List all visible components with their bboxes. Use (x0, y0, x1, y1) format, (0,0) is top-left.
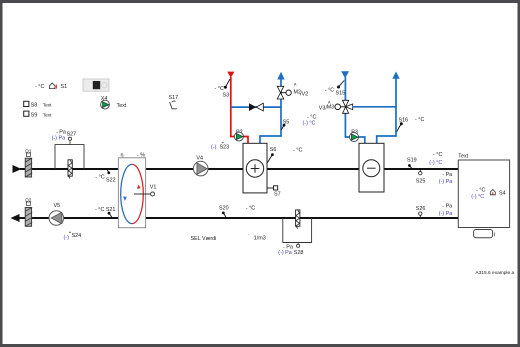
bypass damper V1 (134, 185, 156, 197)
outdoor house icon S1 (50, 83, 55, 89)
room box (458, 154, 509, 228)
svg-text:(-) Pa: (-) Pa (278, 250, 291, 256)
svg-text:- °C S21: - °C S21 (95, 207, 115, 213)
svg-text:(-): (-) (211, 145, 217, 151)
filter F2 (296, 210, 300, 229)
svg-text:S24: S24 (72, 233, 82, 239)
svg-text:S3: S3 (223, 93, 230, 99)
sensor S6 (268, 147, 303, 163)
frame border left (0, 0, 3, 347)
svg-text:S22: S22 (106, 178, 116, 184)
cooling coil (359, 143, 384, 192)
svg-text:S1: S1 (61, 84, 68, 90)
svg-text:S16: S16 (399, 117, 409, 123)
supply duct inlet arrow (13, 165, 22, 173)
extract duct wire (hx to room) (146, 217, 459, 219)
svg-text:- °C: - °C (476, 187, 485, 193)
svg-text:S17: S17 (169, 95, 179, 101)
damper D1 (25, 149, 32, 178)
supply duct wire (hx to heating coil) (146, 168, 243, 170)
S27 connection line (69, 140, 71, 144)
svg-text:- °C: - °C (35, 84, 44, 90)
fan V5 (49, 203, 64, 225)
checkbox S8 (24, 101, 52, 108)
cooling return pipe right (377, 79, 396, 144)
filter F2 pressure tapping box (283, 218, 312, 243)
sensor S5 (281, 120, 289, 131)
heating return arrow (blue, up) (277, 72, 284, 80)
sensor S3 (215, 79, 231, 99)
frame border bottom (0, 344, 520, 347)
rotor red arc (132, 164, 143, 223)
filter F1 pressure tapping box (55, 145, 84, 169)
sensor S21 (95, 207, 115, 217)
svg-text:V5: V5 (54, 203, 61, 209)
rotor blue arrow down (123, 196, 127, 201)
svg-text:(-) Pa: (-) Pa (439, 179, 452, 185)
rotor red arrow up (137, 184, 141, 188)
svg-text:V4: V4 (196, 156, 203, 162)
valve V2 two-way (277, 86, 291, 99)
sensor S15 (325, 81, 345, 97)
heating coil (243, 143, 267, 193)
svg-text:(-) °C: (-) °C (303, 120, 316, 126)
svg-text:S4: S4 (499, 191, 506, 197)
svg-text:- Pa: - Pa (442, 204, 452, 210)
svg-text:- °C: - °C (215, 86, 224, 92)
svg-text:V1: V1 (150, 185, 157, 191)
svg-text:- °C: - °C (325, 87, 334, 93)
svg-text:S9: S9 (31, 112, 38, 118)
red thermometer tick (55, 85, 57, 89)
svg-text:- Pa: - Pa (442, 172, 452, 178)
svg-text:- °C: - °C (293, 148, 302, 154)
cooling return arrow (blue, up) (392, 72, 399, 79)
svg-text:Text: Text (117, 103, 127, 109)
svg-text:S23: S23 (220, 145, 230, 151)
svg-text:- °C: - °C (95, 175, 104, 181)
heating supply pipe (red) (231, 77, 248, 144)
cooling bypass line (valve to return) (353, 106, 396, 108)
svg-text:- °C: - °C (246, 206, 255, 212)
supply duct wire (heating coil to cooling coil) (267, 168, 359, 170)
svg-text:S6: S6 (270, 147, 277, 153)
svg-text:S26: S26 (416, 206, 426, 212)
toggle button widget (83, 79, 109, 91)
svg-text:(-): (-) (64, 235, 70, 241)
sensor S26 (416, 204, 452, 218)
sensor S20 (219, 206, 255, 218)
pump P3 (350, 129, 359, 141)
svg-text:I: I (494, 232, 496, 238)
svg-text:- °C: - °C (433, 152, 442, 158)
svg-text:(-) °C: (-) °C (471, 194, 484, 200)
svg-text:S25: S25 (416, 179, 426, 185)
supply duct wire (cooling coil to room) (384, 168, 458, 170)
heating return pipe (blue) (260, 79, 281, 144)
sensor S22 (95, 169, 115, 184)
switch S17 (169, 95, 179, 109)
frame border right (518, 0, 520, 347)
rotor blue arc (121, 164, 132, 223)
S27 sensing circle (68, 137, 71, 140)
sensor S16 (397, 117, 425, 132)
svg-text:·: · (248, 232, 250, 238)
pump P2 (234, 129, 243, 141)
frame border top (0, 0, 520, 3)
svg-text:SEL Værdi: SEL Værdi (191, 236, 217, 242)
cooling supply pipe left (345, 77, 364, 144)
sensor S25 (416, 169, 452, 185)
bypass line with check valve (231, 106, 281, 108)
svg-text:- °C: - °C (415, 117, 424, 123)
room house icon S4 (490, 190, 495, 195)
svg-text:(-) °C: (-) °C (429, 160, 442, 166)
svg-text:/V2: /V2 (300, 91, 308, 97)
filter F1 (68, 160, 72, 179)
svg-text:A315.6 example a: A315.6 example a (476, 270, 515, 276)
fan V4 (193, 156, 208, 176)
svg-text:η: η (121, 153, 124, 159)
pump X4 (101, 96, 127, 109)
checkbox S9 (24, 111, 52, 118)
svg-text:S19: S19 (407, 157, 417, 163)
svg-text:S15: S15 (336, 91, 346, 97)
svg-text:(-) Pa: (-) Pa (52, 136, 65, 142)
valve V3 three-way (335, 100, 353, 113)
svg-text:(-) Pa: (-) Pa (439, 211, 452, 217)
damper D2 (25, 198, 32, 227)
frost stat S7 (267, 186, 281, 198)
svg-text:S20: S20 (219, 206, 229, 212)
svg-text:Text: Text (43, 112, 52, 118)
svg-text:S7: S7 (274, 192, 281, 198)
heat exchanger rotor (118, 153, 145, 228)
supply duct wire (left of heat exchanger) (20, 168, 118, 170)
heating supply triangle (red) (227, 72, 234, 78)
svg-text:S28: S28 (294, 250, 304, 256)
check valve (249, 103, 263, 111)
room unit button (474, 230, 496, 239)
sensor S19 (407, 152, 442, 169)
svg-text:S27: S27 (67, 132, 77, 138)
svg-text:Text: Text (43, 103, 52, 109)
svg-text:- %: - % (137, 153, 145, 159)
extract duct wire (left of heat exchanger) (18, 217, 118, 219)
cooling supply triangle (blue, down) (341, 71, 349, 78)
extract duct outlet arrow (11, 214, 20, 222)
svg-text:1/m3: 1/m3 (254, 236, 266, 242)
svg-text:Text: Text (458, 154, 468, 160)
svg-text:S8: S8 (31, 103, 38, 109)
S28 sensing circle (297, 244, 300, 247)
